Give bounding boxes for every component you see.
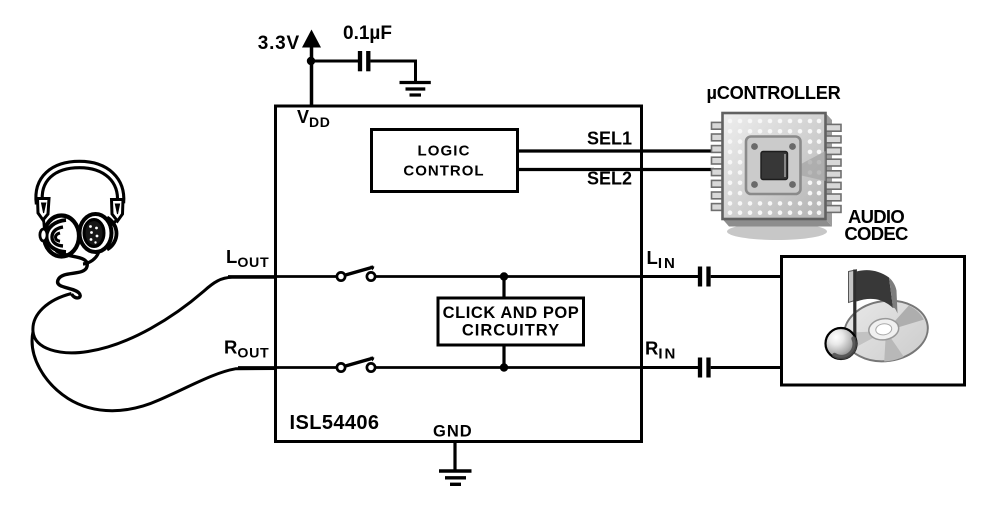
- svg-text:ISL54406: ISL54406: [290, 412, 380, 434]
- svg-text:GND: GND: [433, 423, 473, 441]
- svg-text:µCONTROLLER: µCONTROLLER: [707, 83, 841, 103]
- svg-text:CODEC: CODEC: [844, 223, 908, 244]
- svg-text:CIRCUITRY: CIRCUITRY: [462, 322, 560, 340]
- svg-text:3.3V: 3.3V: [258, 33, 300, 54]
- svg-text:SEL2: SEL2: [587, 169, 632, 189]
- svg-text:LOGIC: LOGIC: [418, 143, 471, 160]
- svg-text:SEL1: SEL1: [587, 129, 632, 149]
- svg-text:0.1µF: 0.1µF: [343, 23, 392, 44]
- svg-text:CONTROL: CONTROL: [403, 163, 484, 180]
- svg-text:CLICK AND POP: CLICK AND POP: [443, 304, 580, 322]
